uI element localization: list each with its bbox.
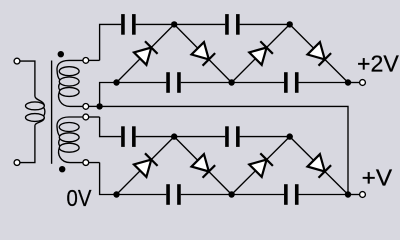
wire: +2V output stub	[348, 82, 363, 84]
wire: upper ladder top row left segment	[100, 24, 122, 60]
wire: diagonal node A to node B	[117, 24, 175, 82]
wire: lower secondary top terminal stub	[86, 116, 100, 118]
node D'	[287, 133, 293, 139]
diode D7	[249, 153, 273, 177]
wire: lower ladder top row middle segment	[136, 136, 226, 138]
diode D2	[191, 42, 215, 66]
terminal: lower secondary top	[83, 114, 89, 120]
terminal: primary top	[14, 58, 20, 64]
node A	[113, 79, 119, 85]
terminal: lower secondary bottom	[83, 160, 89, 166]
wire: primary bottom lead	[17, 126, 35, 163]
wire: lower ladder top row right segment	[240, 136, 290, 138]
node A'	[113, 191, 119, 197]
diode D5	[134, 153, 158, 177]
capacitor C3	[166, 72, 181, 93]
capacitor C1	[121, 14, 136, 35]
phase dot upper secondary	[58, 51, 64, 57]
diode D3	[249, 41, 273, 65]
wire: upper secondary bottom terminal stub	[86, 105, 100, 107]
node E'	[345, 191, 351, 197]
wire: diagonal node D' to node E'	[290, 137, 348, 195]
capacitor C5	[121, 126, 136, 147]
diode D8	[307, 154, 331, 178]
phase dot lower secondary	[59, 166, 65, 172]
terminal: +V output	[360, 192, 366, 198]
wire: +V output stub	[348, 194, 363, 196]
wire: upper ladder bottom row left segment	[100, 83, 167, 107]
primary winding L1	[26, 96, 45, 126]
node C	[228, 79, 234, 85]
capacitor C6	[225, 126, 240, 147]
wire: diagonal node D to node E	[290, 24, 348, 82]
wire: diagonal node A' to node B'	[117, 137, 175, 195]
wire: diagonal node C' to node D'	[232, 137, 290, 195]
capacitor C7	[166, 184, 181, 205]
wire: upper ladder bottom row middle segment	[181, 82, 284, 84]
node: center tap junction	[96, 103, 102, 109]
wire: upper ladder bottom row right segment	[299, 82, 348, 84]
terminal: +2V output	[360, 80, 366, 86]
diode D1	[134, 41, 158, 65]
terminal: primary bottom	[14, 160, 20, 166]
diode D4	[307, 42, 331, 66]
node C'	[228, 191, 234, 197]
lower secondary winding L3	[57, 117, 86, 163]
capacitor C8	[284, 184, 299, 205]
wire: lower secondary bottom terminal stub	[86, 162, 100, 164]
wire: lower ladder bottom row middle segment	[181, 194, 284, 196]
capacitor C4	[284, 72, 299, 93]
capacitor C2	[225, 14, 240, 35]
svg-text:+V: +V	[362, 165, 393, 191]
wire: lower ladder bottom row left segment	[100, 163, 167, 195]
svg-text:+2V: +2V	[357, 51, 399, 77]
wire: lower ladder top row left segment	[100, 117, 122, 137]
transformer core	[51, 61, 53, 164]
wire: lower ladder bottom row right segment	[299, 194, 348, 196]
node B	[171, 21, 177, 27]
terminal: upper secondary bottom	[83, 104, 89, 110]
node D	[287, 21, 293, 27]
wire: diagonal node B' to node C'	[174, 137, 231, 195]
wire: diagonal node C to node D	[232, 24, 290, 82]
wire: +V rail from center junction down to +V node	[100, 106, 348, 194]
svg-text:0V: 0V	[67, 185, 92, 211]
upper secondary winding L2	[57, 60, 86, 106]
wire: primary top lead	[17, 61, 35, 96]
wire: upper ladder top row right segment	[240, 23, 290, 25]
wire: upper ladder top row middle segment	[136, 23, 226, 25]
node E	[345, 79, 351, 85]
diode D6	[191, 154, 215, 178]
node B'	[171, 133, 177, 139]
wire: upper secondary top terminal stub	[86, 59, 100, 61]
wire: diagonal node B to node C	[174, 24, 231, 82]
terminal: upper secondary top	[83, 58, 89, 64]
